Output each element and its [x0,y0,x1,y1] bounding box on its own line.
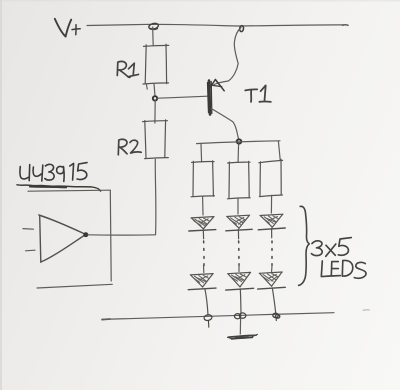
wire V+ rail to R1 [152,27,155,46]
LED D5 (col2 row2) [226,272,254,314]
wire resistor 2 to LED [237,198,239,214]
node junction on V+ rail above R1 [148,22,159,30]
wire to ground symbol [239,318,241,334]
op-amp non-inverting input pin [26,249,36,252]
IC U1 LM3915 box [28,190,112,288]
LED D1 (col1 row1) [189,217,216,239]
wire junction to R2 [154,100,156,123]
wire V+ top rail [87,24,348,26]
underline of LM3915 [17,185,101,191]
label LM3915 [20,163,87,182]
wire drop to column 3 resistor [278,141,280,160]
label 3x5 [312,238,352,257]
node collector junction [237,139,242,143]
LED D2 (col2 row1) [226,215,252,239]
wire stub above LED D5 [238,266,240,272]
transistor T1 emitter arrow [210,79,225,90]
label V+ [55,19,80,37]
wire LED feed rail [197,141,281,144]
dotted continuation column 2 [238,241,240,266]
op-amp U1 triangle [39,215,86,262]
node junction rail col3 [273,313,280,320]
label R2 [118,139,141,155]
label R1 [117,61,138,77]
node junction R1/R2/base [153,96,157,100]
ground [228,334,258,338]
wire base to T1 [158,96,208,98]
resistor column 2 [227,161,250,198]
resistor R1 [143,44,169,89]
transistor T1 base bar [208,81,212,115]
resistor R2 [143,120,169,159]
wire R1 to junction [153,84,156,96]
wire stub above LED D4 [203,266,205,273]
wire drop to column 1 resistor [200,144,203,162]
wire ground rail [102,310,370,320]
wire R2 to op-amp output net [154,159,157,234]
wire drop to column 2 resistor [237,144,240,162]
resistor column 1 [191,161,214,197]
node junction on V+ rail at emitter [239,25,244,31]
wire resistor 3 to LED [270,195,272,213]
wire op-amp output to R2 [88,234,156,236]
op-amp inverting input pin [23,228,34,231]
brace for LED array [299,206,310,285]
resistor column 3 [259,159,283,196]
wire resistor 1 to LED [202,196,204,215]
LED D4 (col1 row2) [188,274,216,315]
dotted continuation column 3 [271,241,273,266]
LED D6 (col3 row2) [258,272,286,314]
dotted continuation column 1 [203,241,205,266]
node junction rail col1 [204,314,213,327]
label T1 [245,85,270,102]
node junction rail col2 [235,313,246,319]
wire stub above LED D6 [271,266,273,272]
transistor T1 collector wire [211,109,239,141]
node op-amp output [84,233,88,237]
transistor T1 emitter wire [214,28,241,85]
LED D3 (col3 row1) [258,214,285,238]
label LEDS [321,260,366,278]
